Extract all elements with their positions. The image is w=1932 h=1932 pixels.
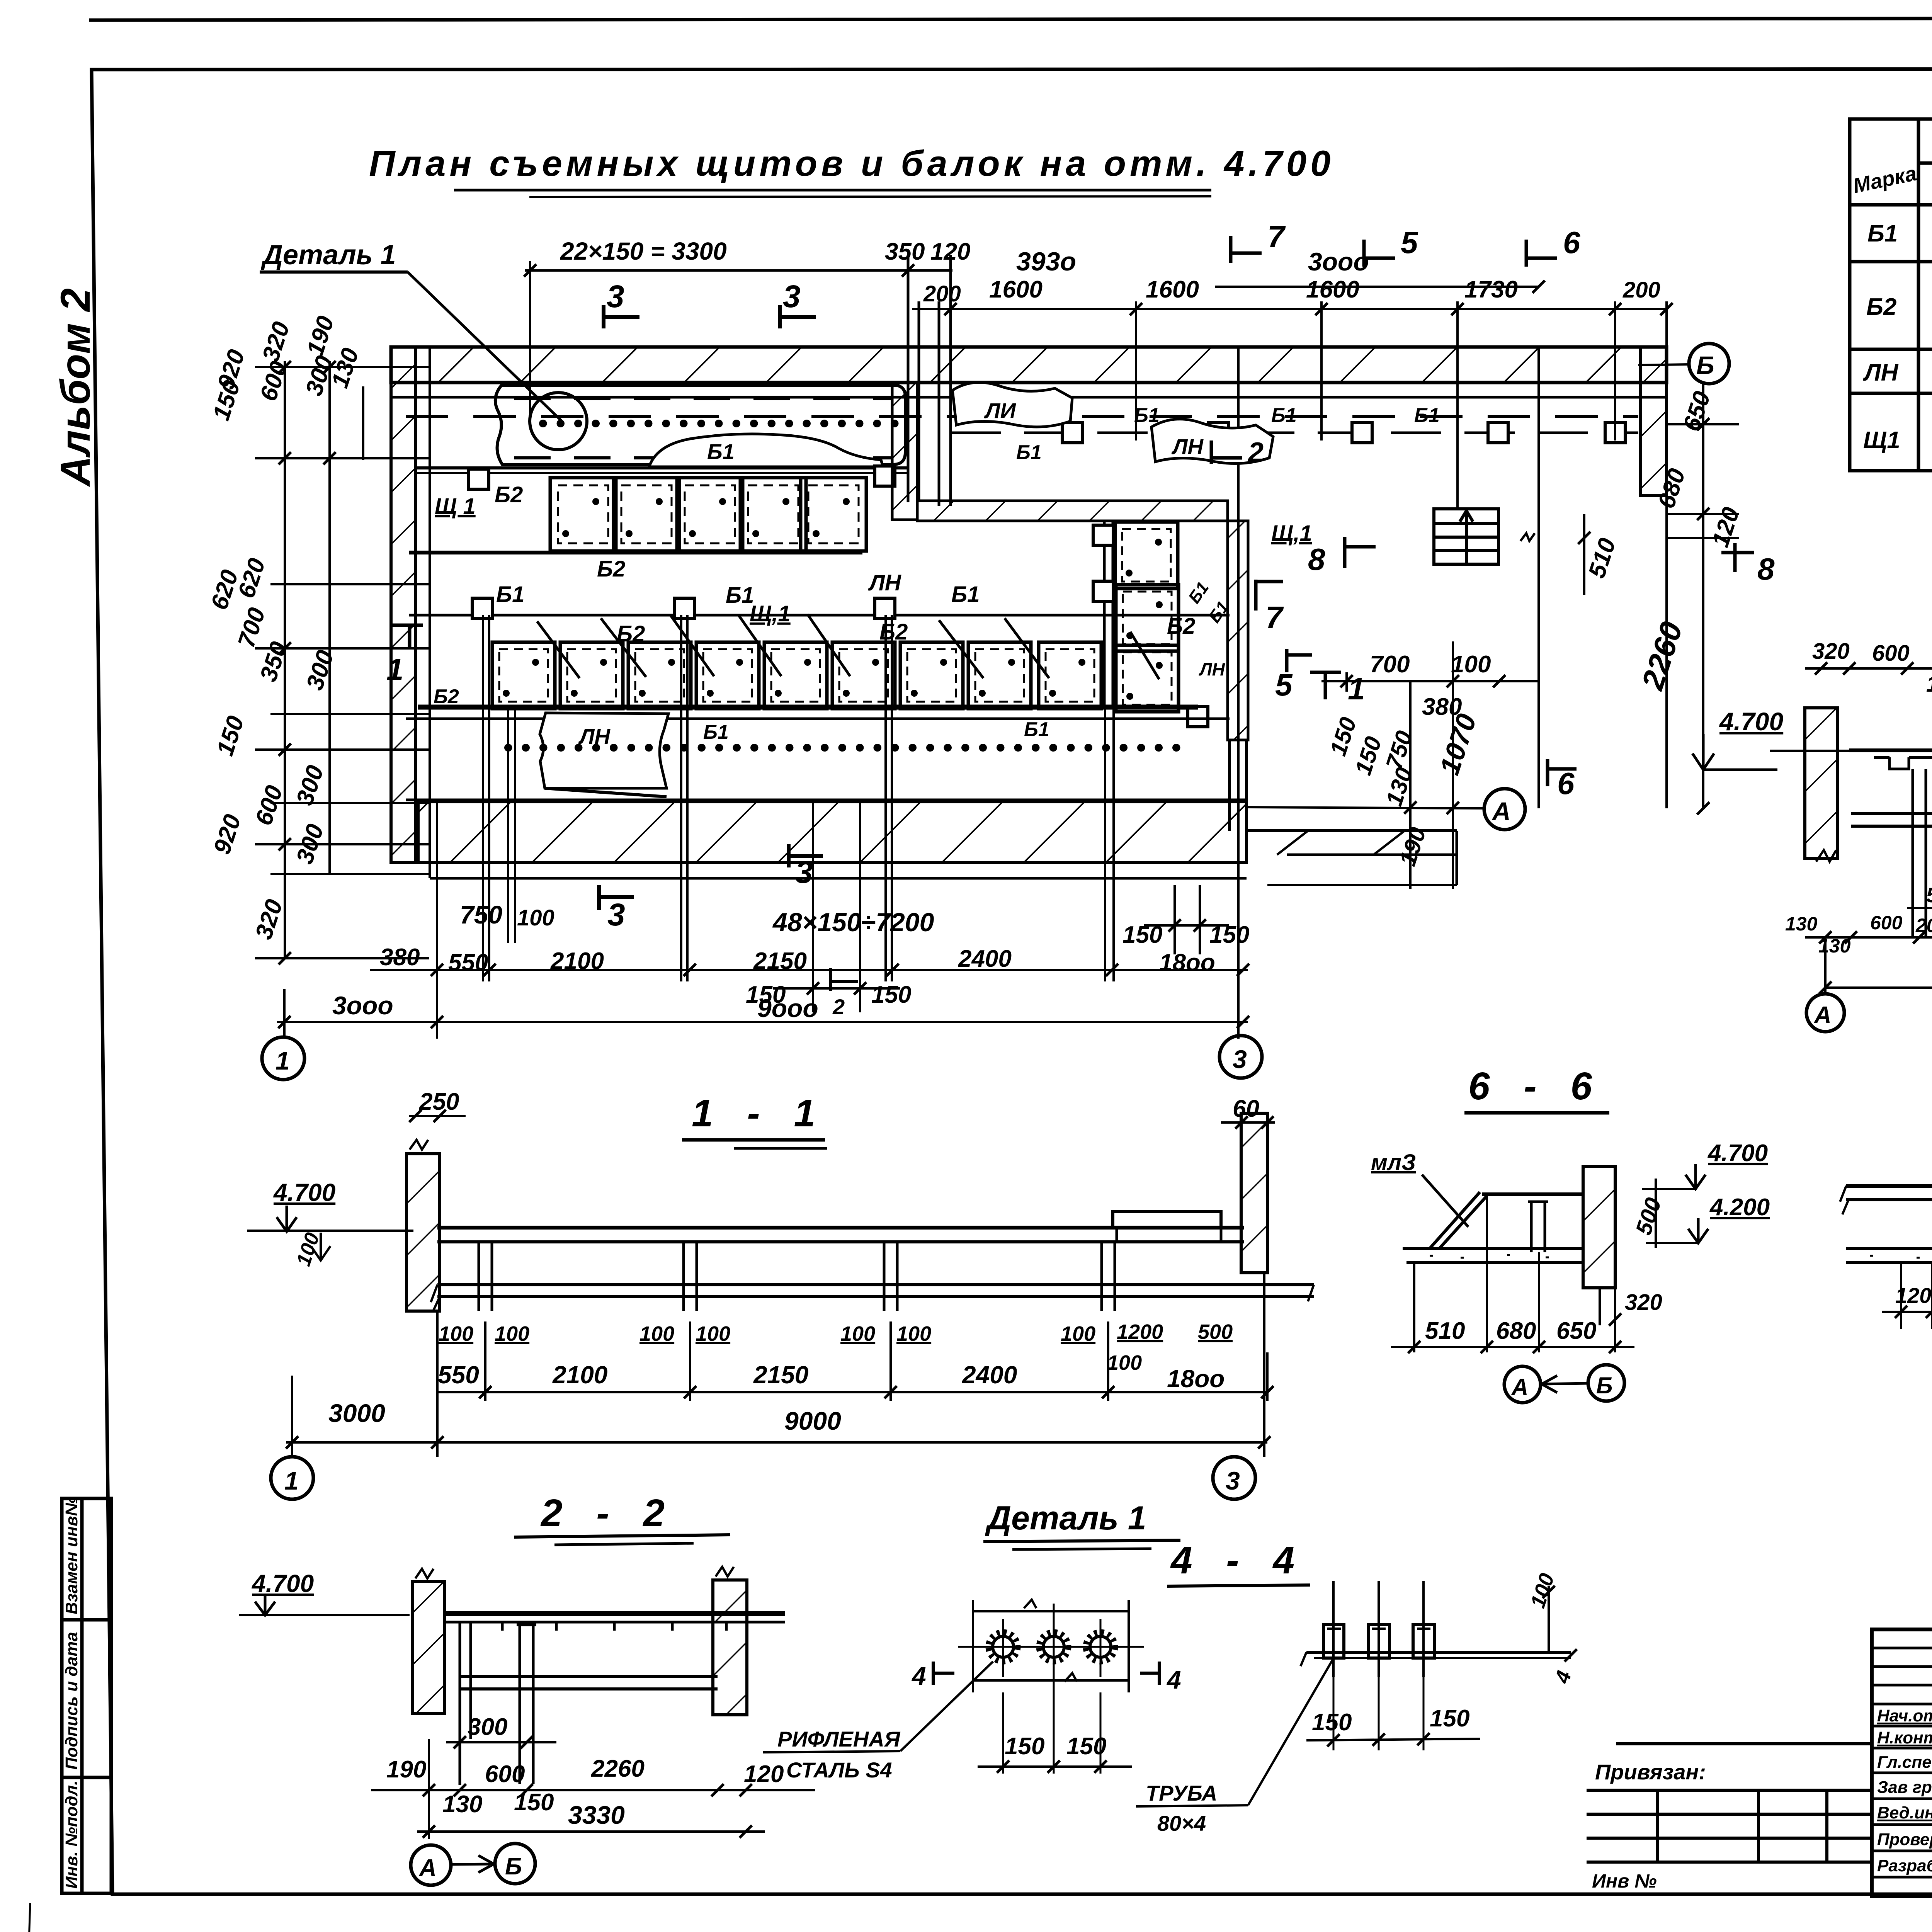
Б1 cloud upper [649, 434, 883, 467]
svg-text:2: 2 [832, 995, 845, 1019]
column squares on beam [1062, 423, 1082, 443]
svg-text:120: 120 [930, 238, 970, 265]
svg-text:Щ1: Щ1 [1863, 427, 1900, 454]
floor strip [1846, 1247, 1932, 1250]
hatched wall column [1583, 1167, 1615, 1288]
svg-text:1: 1 [276, 1046, 290, 1075]
signature table columns [1872, 1629, 1932, 1896]
svg-text:18оо: 18оо [1159, 949, 1215, 976]
svg-text:Инв. №подл.: Инв. №подл. [62, 1781, 81, 1889]
sheet left bottom edge [29, 1903, 30, 1932]
svg-text:2260: 2260 [591, 1755, 645, 1782]
section mark 8 right [1721, 543, 1754, 572]
svg-text:4.700: 4.700 [251, 1570, 314, 1597]
header texts [1851, 124, 1932, 206]
svg-text:18оо: 18оо [1167, 1365, 1225, 1393]
section mark 1 left [392, 625, 423, 649]
wall centreline dashed [406, 415, 1638, 418]
svg-text:Б2: Б2 [434, 685, 459, 708]
svg-text:1600: 1600 [1306, 276, 1359, 303]
svg-text:4: 4 [911, 1662, 926, 1690]
svg-text:4.700: 4.700 [1719, 707, 1783, 736]
base line [1306, 1651, 1571, 1654]
svg-text:3: 3 [783, 279, 801, 314]
table outer box [1850, 119, 1932, 471]
svg-text:А: А [418, 1855, 437, 1881]
svg-text:320: 320 [1625, 1290, 1662, 1315]
panel row 1 [550, 478, 616, 551]
svg-text:Б1: Б1 [1016, 441, 1042, 464]
svg-text:50: 50 [1926, 884, 1932, 907]
top beam strip [445, 1611, 785, 1616]
svg-text:3000: 3000 [328, 1399, 385, 1427]
svg-text:6: 6 [1563, 225, 1580, 260]
top plate [1482, 1192, 1584, 1196]
deck slab [1849, 748, 1932, 752]
svg-text:7: 7 [1265, 600, 1284, 634]
signature labels [1877, 1706, 1932, 1875]
section mark 7 mid [1256, 580, 1283, 611]
svg-text:ЛН: ЛН [1863, 359, 1899, 386]
svg-text:600: 600 [1872, 641, 1910, 666]
svg-text:Б: Б [1696, 351, 1714, 379]
title block outer [1872, 1629, 1932, 1896]
svg-text:300: 300 [468, 1714, 507, 1740]
right dim chain vertical [1702, 383, 1704, 808]
svg-text:350: 350 [885, 238, 925, 265]
svg-text:550: 550 [438, 1361, 479, 1389]
pit box right [1113, 1211, 1221, 1228]
section mark 6 top [1526, 240, 1557, 267]
serrated washers [988, 1632, 1115, 1662]
svg-text:100: 100 [896, 1322, 931, 1345]
svg-text:План съемных щитов и балок: План съемных щитов и балок на отм. 4.700 [369, 143, 1334, 184]
svg-text:Привязан:: Привязан: [1595, 1760, 1706, 1784]
svg-text:190: 190 [386, 1756, 426, 1783]
svg-text:600: 600 [1870, 912, 1903, 934]
svg-text:Щ,1: Щ,1 [750, 601, 791, 626]
svg-text:млЗ: млЗ [1371, 1150, 1416, 1175]
beam inner dashes [514, 397, 893, 400]
top wall band hatched [391, 347, 1667, 383]
left wall inner line [429, 347, 431, 878]
grid circle 3 [1219, 1036, 1262, 1078]
mid beam double line [460, 1675, 718, 1678]
svg-text:Вед.инж: Вед.инж [1877, 1803, 1932, 1822]
svg-text:Б1: Б1 [951, 582, 980, 607]
svg-text:ЛН: ЛН [868, 570, 901, 595]
right riser [1548, 1586, 1550, 1652]
bolt dots row upper [543, 420, 906, 427]
svg-text:2400: 2400 [962, 1361, 1017, 1389]
svg-text:Альбом 2: Альбом 2 [52, 288, 99, 487]
row Б1 [1867, 215, 1932, 255]
svg-text:8: 8 [1308, 542, 1325, 577]
svg-text:ЛН: ЛН [1171, 434, 1204, 459]
ЛИ cloud right [952, 383, 1072, 427]
svg-text:5: 5 [1401, 225, 1418, 260]
right wall strip [1640, 347, 1667, 496]
svg-text:500: 500 [1198, 1320, 1233, 1344]
svg-text:3ооо: 3ооо [1308, 247, 1369, 276]
left wall hatched [1805, 708, 1837, 859]
left slab shelf [1846, 1184, 1932, 1188]
section mark 5 mid [1287, 649, 1312, 672]
svg-text:Щ 1: Щ 1 [435, 494, 476, 519]
grid circles А Б of 6-6 [1504, 1366, 1541, 1403]
post [1528, 1202, 1548, 1252]
svg-text:Взамен инв№: Взамен инв№ [62, 1497, 81, 1614]
section mark 3 top pair [604, 305, 639, 328]
left dim horizontal ticks [255, 367, 429, 958]
floor strip [1403, 1247, 1584, 1250]
svg-text:3ооо: 3ооо [332, 991, 393, 1020]
svg-text:2: 2 [1247, 437, 1264, 468]
bolt dots row lower [508, 744, 1186, 752]
svg-text:150: 150 [1312, 1709, 1352, 1736]
grid circle 1 [262, 1037, 304, 1080]
svg-text:Б: Б [1596, 1372, 1612, 1398]
svg-text:Щ,1: Щ,1 [1271, 521, 1312, 546]
grid circle Б [1689, 344, 1729, 384]
svg-text:22×150 = 3300: 22×150 = 3300 [560, 237, 727, 265]
svg-text:Б2: Б2 [495, 482, 523, 507]
inner wall hatched strip horizontal [917, 501, 1228, 521]
table header lines [1918, 162, 1932, 165]
dims 550 2100 2150 2400 1800 [438, 1361, 1225, 1393]
left wall hatched strip [391, 347, 415, 862]
beam Б1 outline upper [495, 385, 905, 464]
svg-text:Б1: Б1 [707, 439, 735, 464]
svg-text:СТАЛЬ S4: СТАЛЬ S4 [786, 1758, 892, 1782]
svg-text:1: 1 [284, 1466, 299, 1495]
dims 100 100 row [439, 1320, 1233, 1374]
stair [1434, 509, 1498, 564]
verticals [1901, 1252, 1932, 1354]
svg-text:5: 5 [1275, 668, 1293, 702]
bottom wall band [406, 799, 1247, 801]
grid circles А Б of 2-2 [411, 1845, 451, 1885]
left wall hatched [406, 1154, 440, 1311]
svg-text:48×150÷7200: 48×150÷7200 [772, 908, 934, 937]
top wall inner line [391, 396, 1667, 399]
svg-text:Б: Б [505, 1853, 522, 1880]
svg-text:РИФЛЕНАЯ: РИФЛЕНАЯ [777, 1727, 901, 1751]
ЛН cloud 2 mark [1151, 419, 1273, 464]
svg-text:4: 4 [1166, 1665, 1181, 1694]
svg-text:Б1: Б1 [496, 582, 524, 607]
svg-text:100: 100 [1107, 1351, 1142, 1374]
three posts [1333, 1581, 1423, 1677]
section mark 7 top [1231, 236, 1262, 263]
grid circles 1 3 [271, 1457, 313, 1499]
svg-text:250: 250 [419, 1088, 459, 1115]
section mark 8 mid [1345, 537, 1376, 568]
top dims 200 1600 1600 1600 1730 200 [912, 308, 1667, 310]
svg-text:600: 600 [485, 1761, 525, 1787]
svg-text:9000: 9000 [784, 1406, 841, 1435]
svg-text:ТРУБА: ТРУБА [1146, 1781, 1217, 1805]
top dim line 22x150=3300 350 120 [525, 269, 952, 272]
right room bottom [1247, 829, 1457, 832]
main slab double line [437, 1226, 1244, 1230]
svg-text:100: 100 [1061, 1322, 1095, 1345]
thick bottom line row2 [418, 705, 1198, 710]
left dim numbers rotated [206, 313, 364, 943]
svg-text:510: 510 [1425, 1318, 1465, 1344]
svg-text:7: 7 [1267, 219, 1286, 254]
cloud box lower ЛН [540, 713, 668, 788]
svg-text:1600: 1600 [1146, 276, 1199, 303]
hanger pairs [1913, 769, 1932, 937]
svg-text:6: 6 [1557, 766, 1575, 801]
table column lines [1917, 119, 1920, 471]
svg-text:1600: 1600 [989, 276, 1043, 303]
sloped plate [1430, 1192, 1487, 1248]
svg-text:А: А [1813, 1002, 1832, 1029]
svg-text:4.700: 4.700 [273, 1179, 335, 1206]
top dim line [1805, 667, 1932, 670]
squiggle mark right of stair [1520, 533, 1535, 541]
А axis dim line [1247, 807, 1484, 808]
dim box [973, 1610, 1129, 1612]
svg-text:100: 100 [1451, 651, 1491, 678]
svg-text:680: 680 [1496, 1318, 1536, 1344]
510 tick line [1583, 514, 1585, 595]
signature rows [1872, 1725, 1932, 1728]
svg-text:120: 120 [1895, 1283, 1931, 1308]
left hatched column [412, 1582, 445, 1713]
post pairs [479, 1242, 1115, 1311]
svg-text:150: 150 [1926, 672, 1932, 697]
verticals to dim line [1414, 1196, 1615, 1352]
Привязан box [1587, 1744, 1872, 1862]
svg-text:Б1: Б1 [703, 721, 729, 743]
svg-text:Инв №: Инв № [1592, 1870, 1657, 1892]
svg-text:100: 100 [840, 1322, 875, 1345]
svg-text:Нач.отд: Нач.отд [1877, 1706, 1932, 1725]
svg-text:4.700: 4.700 [1707, 1140, 1768, 1167]
grid line 3 vertical [1237, 347, 1240, 1039]
svg-text:80×4: 80×4 [1157, 1811, 1206, 1835]
svg-text:Провер.: Провер. [1877, 1830, 1932, 1849]
svg-text:1730: 1730 [1464, 276, 1518, 303]
rotated dims bottom right [1325, 710, 1483, 869]
sheet top edge [89, 18, 1932, 20]
table row lines [1850, 260, 1932, 264]
svg-text:1: 1 [1348, 672, 1365, 706]
marker squares rail [469, 469, 489, 489]
svg-text:Б2: Б2 [1866, 294, 1896, 320]
left stamp boxes [62, 1498, 111, 1893]
svg-text:Б1: Б1 [1867, 220, 1898, 247]
svg-text:4 - 4: 4 - 4 [1170, 1539, 1306, 1582]
svg-text:150: 150 [1430, 1705, 1469, 1732]
svg-text:3: 3 [1226, 1466, 1240, 1495]
svg-text:Зав гр.: Зав гр. [1877, 1778, 1932, 1797]
svg-text:Разраб.: Разраб. [1877, 1856, 1932, 1875]
svg-text:150: 150 [1066, 1733, 1106, 1760]
row Б2 [1866, 265, 1932, 349]
4T marks [933, 1662, 954, 1685]
svg-text:ЛН: ЛН [578, 724, 611, 748]
svg-text:Б1: Б1 [1024, 718, 1049, 741]
svg-text:130: 130 [1785, 913, 1818, 935]
room divider wall hatched vertical [1228, 521, 1248, 740]
bottom dim row texts [1785, 912, 1932, 990]
leader strokes row2 [537, 614, 1159, 679]
svg-text:3: 3 [795, 855, 813, 890]
svg-text:1 - 1: 1 - 1 [692, 1092, 827, 1135]
inner verticals and post [460, 1622, 536, 1785]
svg-text:3: 3 [607, 279, 624, 314]
cross beam 3-3 [1851, 812, 1932, 815]
stack rail verticals [1103, 522, 1106, 707]
right wall hatched [1241, 1113, 1267, 1273]
joint wall hatched vertical [892, 383, 917, 520]
svg-text:120: 120 [744, 1761, 784, 1787]
section mark 5 top [1364, 240, 1395, 267]
section mark 6 mid [1548, 759, 1577, 786]
section mark 3 bottom pair [789, 844, 823, 867]
svg-text:ЛН: ЛН [1199, 659, 1225, 679]
svg-text:100: 100 [639, 1322, 674, 1345]
upper right beam dash line [951, 432, 1638, 434]
svg-text:Н.контр.: Н.контр. [1877, 1728, 1932, 1747]
section mark 1 mid [1310, 672, 1341, 699]
svg-text:150: 150 [871, 981, 911, 1008]
svg-text:А: А [1492, 797, 1511, 825]
lower floor double line [437, 1283, 1314, 1286]
svg-text:650: 650 [1556, 1318, 1596, 1344]
svg-text:3330: 3330 [568, 1801, 625, 1829]
wall bottom squiggle [1816, 850, 1836, 862]
svg-text:100: 100 [517, 905, 554, 930]
vertical grid through stair [1537, 347, 1540, 808]
svg-text:Гл.спец.: Гл.спец. [1877, 1753, 1932, 1772]
grid circles А Б of 3-3 [1806, 994, 1844, 1032]
svg-text:Подпись и дата: Подпись и дата [62, 1632, 81, 1770]
section 2 mark top [1211, 440, 1242, 464]
svg-text:4.200: 4.200 [1709, 1194, 1770, 1221]
svg-text:9ооо: 9ооо [757, 994, 818, 1022]
rail double line [415, 466, 908, 469]
svg-text:3: 3 [607, 897, 625, 932]
svg-text:393о: 393о [1016, 247, 1076, 276]
svg-text:1200: 1200 [1117, 1320, 1163, 1344]
svg-text:100: 100 [495, 1322, 529, 1345]
svg-text:320: 320 [1812, 639, 1850, 664]
svg-text:Б1: Б1 [1271, 404, 1297, 427]
svg-text:2100: 2100 [552, 1361, 607, 1389]
svg-text:150: 150 [1005, 1733, 1044, 1760]
svg-text:200: 200 [1622, 277, 1660, 303]
panel stack right [1115, 522, 1178, 588]
joint strip verticals [907, 255, 910, 502]
panel row 2 [492, 642, 555, 709]
svg-text:Б2: Б2 [597, 556, 625, 582]
row1 bottom line [409, 551, 862, 554]
right hatched column [713, 1580, 747, 1715]
beam line y1592 [409, 614, 1230, 617]
svg-text:2400: 2400 [958, 946, 1012, 972]
svg-text:Деталь 1: Деталь 1 [985, 1500, 1146, 1537]
grid circle А [1484, 789, 1525, 830]
svg-text:1: 1 [386, 652, 404, 687]
svg-text:3: 3 [1233, 1045, 1247, 1073]
svg-text:2150: 2150 [753, 1361, 808, 1389]
Деталь 1 circle [530, 393, 587, 450]
svg-text:130: 130 [442, 1791, 482, 1818]
svg-text:700: 700 [1370, 651, 1410, 678]
svg-text:750: 750 [460, 900, 502, 929]
svg-text:150: 150 [514, 1789, 554, 1816]
svg-text:2 - 2: 2 - 2 [540, 1492, 676, 1535]
svg-text:ЛИ: ЛИ [984, 398, 1016, 423]
svg-text:Б1: Б1 [1414, 404, 1440, 427]
svg-text:А: А [1511, 1374, 1528, 1400]
small dims 50s [1926, 878, 1932, 907]
Деталь 1 leader [408, 272, 561, 420]
centerlines [958, 1646, 1144, 1648]
svg-text:6 - 6: 6 - 6 [1468, 1065, 1604, 1108]
left dim chain verticals [284, 361, 286, 958]
svg-text:380: 380 [380, 944, 420, 971]
svg-text:100: 100 [696, 1322, 730, 1345]
svg-text:100: 100 [439, 1322, 473, 1345]
svg-text:Деталь 1: Деталь 1 [260, 240, 396, 270]
svg-text:8: 8 [1757, 552, 1775, 586]
signature table upper empty rows [1872, 1647, 1932, 1650]
dim 700 100 380 [1321, 680, 1539, 682]
